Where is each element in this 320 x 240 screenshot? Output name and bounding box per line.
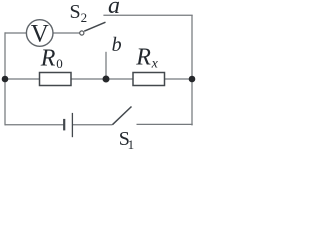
- junction dot left: [2, 76, 9, 83]
- wire middle left segment: [5, 78, 40, 80]
- wire middle right segment: [165, 78, 193, 80]
- svg-text:R: R: [40, 46, 56, 72]
- svg-text:V: V: [31, 21, 49, 48]
- svg-text:0: 0: [56, 56, 63, 71]
- wire left rail: [4, 32, 6, 125]
- wire right rail: [191, 15, 193, 125]
- svg-text:b: b: [112, 34, 122, 56]
- battery cell long plate: [71, 113, 73, 137]
- switch S2 blade: [84, 22, 105, 31]
- resistor Rx box: [133, 73, 165, 86]
- svg-text:x: x: [151, 57, 159, 72]
- svg-text:S: S: [70, 1, 81, 23]
- svg-text:a: a: [108, 0, 120, 19]
- wire voltmeter to S2 pivot: [53, 32, 80, 34]
- wire bottom left segment: [5, 124, 64, 126]
- voltmeter V1 circle: [26, 20, 53, 47]
- resistor R0 box: [40, 73, 72, 86]
- switch S2 pivot circle: [80, 31, 84, 35]
- wire node b stub: [105, 52, 107, 79]
- svg-text:1: 1: [128, 137, 135, 152]
- wire bottom right segment: [137, 123, 193, 125]
- junction dot right: [189, 76, 196, 83]
- switch S1 blade: [112, 107, 131, 125]
- wire battery to S1: [72, 124, 112, 126]
- battery cell short plate: [63, 119, 65, 130]
- junction dot node b: [103, 76, 110, 83]
- wire top (a to right rail): [103, 14, 192, 16]
- svg-text:2: 2: [81, 10, 88, 25]
- svg-text:R: R: [135, 44, 151, 70]
- wire middle center segment: [71, 78, 133, 80]
- wire voltmeter left lead: [5, 32, 26, 34]
